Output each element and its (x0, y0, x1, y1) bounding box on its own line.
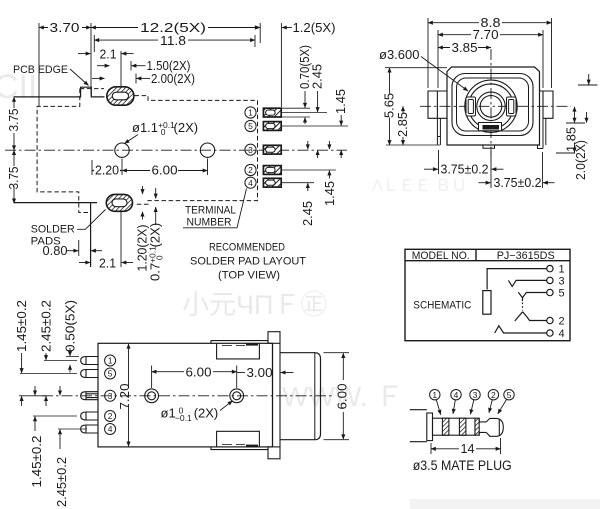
dia 3.600 label (379, 47, 468, 91)
svg-text:7.20: 7.20 (117, 384, 132, 410)
svg-text:6.00: 6.00 (152, 163, 178, 178)
svg-text:2: 2 (491, 390, 496, 400)
svg-text:SOLDER: SOLDER (31, 224, 75, 236)
dim 2.1 bottom (79, 212, 133, 268)
dim 2.00(2X) (92, 74, 150, 84)
svg-text:3.00: 3.00 (247, 365, 273, 380)
plug neck (479, 418, 486, 435)
shield barrel circles (465, 80, 517, 132)
svg-text:5: 5 (559, 288, 565, 300)
barrel (280, 353, 321, 440)
svg-text:2.20: 2.20 (95, 163, 119, 178)
svg-text:1.2(5X): 1.2(5X) (293, 20, 336, 35)
leaders (436, 400, 506, 415)
svg-text:ø10−0.1(2X): ø10−0.1(2X) (161, 406, 219, 424)
pin3 wire with tip contact (508, 280, 546, 286)
svg-text:3: 3 (248, 145, 253, 155)
layout view dimensions top (39, 23, 281, 107)
housing rounded square outer (452, 74, 533, 136)
svg-text:3.75±0.2: 3.75±0.2 (441, 162, 489, 177)
svg-text:1.45±0.2: 1.45±0.2 (14, 300, 29, 352)
plug cable boot (410, 410, 427, 442)
dim 0.80 bottom (67, 240, 103, 256)
dim 2.20 and 6.00 (92, 159, 208, 176)
dim 3.75±0.2 right (479, 152, 555, 188)
dim 7.70 (438, 30, 543, 88)
connector body (447, 67, 540, 145)
dashed courtyard outline (37, 89, 257, 213)
dim 7.20 (128, 344, 130, 447)
svg-text:ø3.5 MATE PLUG: ø3.5 MATE PLUG (413, 458, 512, 473)
bottom center bump (483, 145, 495, 148)
svg-text:1.45: 1.45 (333, 89, 348, 114)
dim 3.75±0.2 left (424, 150, 504, 188)
dim 1.45 lower (328, 141, 330, 179)
holes in side view (145, 389, 244, 403)
svg-text:PCB EDGE: PCB EDGE (13, 64, 68, 76)
svg-text:2: 2 (248, 165, 253, 175)
mounting plate (268, 332, 280, 459)
dim 8.8 (428, 18, 552, 88)
svg-text:3: 3 (473, 390, 478, 400)
side contact right (507, 97, 517, 116)
dim 6.00 between holes (152, 366, 237, 389)
svg-text:0.80: 0.80 (43, 243, 68, 258)
solder pad bottom (hatched oval) (106, 194, 132, 211)
centerlines (420, 49, 571, 162)
dim 2.85 (402, 106, 404, 145)
pin number circles (105, 355, 116, 435)
svg-text:2.45: 2.45 (310, 64, 325, 89)
svg-text:RECOMMENDED: RECOMMENDED (209, 242, 285, 254)
pin1 wire and sleeve contact (483, 269, 547, 315)
svg-text:2: 2 (559, 316, 565, 328)
dim 2.45 upper (317, 91, 319, 158)
svg-text:5: 5 (108, 369, 113, 379)
shield flange left (428, 91, 447, 118)
dia 1 label (161, 401, 233, 423)
dim 1.50(2X) (97, 61, 146, 71)
hole diameter label (125, 120, 199, 144)
svg-text:1: 1 (248, 108, 253, 118)
svg-text:3.75±0.2: 3.75±0.2 (494, 175, 542, 190)
dim 1.2(5X) (248, 27, 292, 29)
svg-text:小元ЧПＦ㊣: 小元ЧПＦ㊣ (182, 290, 327, 320)
terminal pads (hatched rectangles) (263, 108, 281, 187)
RECOMMENDED SOLDER PAD LAYOUT (TOP VIEW) (190, 242, 306, 282)
svg-text:3.75: 3.75 (6, 167, 21, 190)
svg-text:4: 4 (454, 390, 459, 400)
right side small dims (556, 74, 598, 153)
dim 3.85 (438, 47, 491, 49)
svg-text:MODEL NO.: MODEL NO. (412, 250, 470, 262)
svg-text:2.85: 2.85 (395, 112, 410, 137)
svg-text:4: 4 (559, 328, 565, 340)
svg-text:3.70: 3.70 (50, 20, 80, 35)
svg-text:0.50(5X): 0.50(5X) (63, 300, 78, 352)
svg-text:5: 5 (248, 121, 253, 131)
svg-text:2.45±0.2: 2.45±0.2 (39, 300, 54, 352)
shield leg right / foot (538, 118, 546, 148)
bore circles (477, 92, 505, 120)
body outline (98, 343, 273, 447)
side contact left (466, 97, 476, 116)
schematic terminals (547, 265, 553, 336)
right-side pad extension lines (282, 108, 348, 183)
dim 5.65 (385, 68, 447, 145)
dim 2.45 lower (307, 141, 309, 191)
svg-text:TERMINAL: TERMINAL (185, 205, 236, 217)
svg-text:1: 1 (559, 264, 565, 276)
svg-text:ø1.1+0.10(2X): ø1.1+0.10(2X) (132, 120, 198, 137)
svg-text:3.75: 3.75 (6, 109, 21, 132)
svg-text:3: 3 (108, 391, 113, 401)
svg-text:2.0(2X): 2.0(2X) (573, 140, 588, 180)
bottom boss (211, 431, 268, 449)
centerline (42, 395, 332, 397)
dim 1.45 upper (340, 115, 342, 158)
centerline (5, 149, 347, 151)
svg-text:2.45: 2.45 (300, 201, 315, 226)
TERMINAL NUMBER label (183, 189, 247, 229)
svg-text:1: 1 (108, 356, 113, 366)
svg-text:2.45±0.2: 2.45±0.2 (54, 457, 69, 507)
svg-text:1: 1 (432, 390, 437, 400)
top boss (211, 341, 268, 359)
shield flange right (540, 91, 554, 118)
svg-text:(TOP VIEW): (TOP VIEW) (218, 270, 280, 282)
table frame (405, 249, 570, 340)
pin5 wire with switch arm (518, 292, 546, 310)
dim 0.7(2X) slot height (155, 188, 157, 225)
PCB edge solid line top (14, 87, 105, 97)
svg-text:ø3.600: ø3.600 (379, 47, 419, 62)
plug tip (486, 418, 503, 436)
svg-text:6.00: 6.00 (186, 365, 212, 380)
svg-text:ΛＬＥＥ ＢＵ: ΛＬＥＥ ＢＵ (372, 178, 467, 195)
plug terminal circles (430, 390, 515, 400)
svg-text:1.45±0.2: 1.45±0.2 (29, 436, 44, 488)
left pin dimension cluster (19, 357, 87, 430)
mounting hole left (115, 143, 129, 157)
pins 1 5 3 2 4 (81, 357, 98, 434)
svg-text:3: 3 (559, 275, 565, 287)
dim 0.70(5X) (304, 91, 306, 124)
svg-text:5: 5 (507, 390, 512, 400)
svg-text:SCHEMATIC: SCHEMATIC (413, 300, 471, 312)
svg-text:11.8: 11.8 (160, 33, 186, 48)
svg-text:4: 4 (248, 178, 253, 188)
svg-text:NUMBER: NUMBER (187, 217, 232, 229)
dim 2.1 top (78, 51, 134, 87)
svg-text:2.00(2X): 2.00(2X) (151, 71, 195, 86)
solder pad top (hatched oval) (107, 87, 134, 105)
svg-text:SOLDER PAD LAYOUT: SOLDER PAD LAYOUT (190, 256, 306, 268)
shield leg left (437, 118, 440, 145)
PCB edge solid line bottom (14, 203, 97, 267)
plug shaft with insulator bands (433, 418, 480, 435)
PCB EDGE label (13, 64, 89, 86)
housing rounded square inner (457, 78, 529, 131)
terminal number circles 1 5 3 2 4 (245, 107, 256, 188)
dim 14 (431, 438, 501, 454)
pin2 wire with switch contact (515, 312, 547, 321)
svg-text:2.1: 2.1 (99, 255, 116, 270)
dim 3.75 / 3.75 left (13, 97, 15, 203)
pin4 wire with rear contact (495, 326, 547, 333)
mounting hole right (200, 143, 214, 157)
plug collar (427, 413, 433, 441)
svg-text:3.85: 3.85 (452, 40, 478, 55)
svg-text:4: 4 (108, 424, 113, 434)
svg-text:1.45: 1.45 (322, 181, 337, 206)
svg-text:14: 14 (461, 441, 475, 456)
dim 3.00 (237, 372, 294, 374)
svg-text:2.1: 2.1 (100, 47, 117, 62)
svg-text:2: 2 (108, 411, 113, 421)
svg-text:0.7+0.10(2X): 0.7+0.10(2X) (148, 223, 165, 281)
dim 6.00 barrel (324, 353, 350, 440)
bottom contact (479, 123, 502, 131)
SOLDER PADS label (31, 210, 106, 248)
svg-text:6.00: 6.00 (335, 384, 350, 410)
svg-text:PJ−3615DS: PJ−3615DS (497, 250, 555, 262)
dim 1.20(2X) pad height (142, 186, 144, 220)
